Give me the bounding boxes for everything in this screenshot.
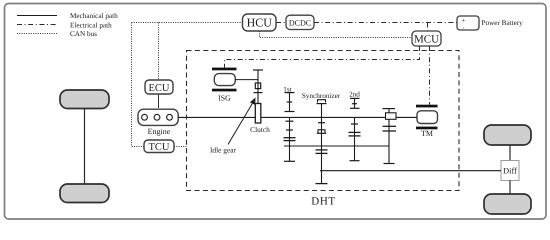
wire electrical MCU top riser [427,23,429,32]
gear 1st label [283,86,291,94]
axle right lower [509,181,511,195]
Diff [501,161,519,181]
shaft engine to clutch [178,116,255,118]
legend mechanical path line [17,12,118,20]
gear 1st lower train [284,117,296,161]
svg-text:Mechanical path: Mechanical path [70,12,118,20]
HCU [243,14,277,31]
output shaft to Diff [320,170,501,172]
wire ISG output [235,79,258,81]
svg-text:MCU: MCU [414,34,439,46]
main shaft clutch to TM [262,116,418,118]
svg-text:Engine: Engine [148,127,171,136]
TCU [144,140,174,153]
gear 2nd label [349,91,360,99]
svg-text:TM: TM [421,129,433,138]
svg-text:+: + [462,17,466,24]
Engine [138,109,178,136]
idle gear label and arrow [210,98,256,155]
gear 2nd lower train [349,117,361,160]
clutch C1 [250,104,270,135]
wire CAN bus vertical to ECU [158,23,160,81]
synchronizer lower train [316,117,328,170]
wire CAN bus TCU to DHT [174,146,187,148]
wire CAN bus HCU to MCU [260,31,413,38]
svg-text:Diff: Diff [503,166,517,176]
legend CAN bus line [17,30,97,38]
svg-text:DHT: DHT [311,196,335,208]
wire ECU to Engine [158,94,160,108]
ISG motor [212,68,237,103]
svg-text:HCU: HCU [247,16,273,30]
axle right upper [509,145,511,161]
gear 1st upper [285,93,295,112]
MCU [412,31,441,46]
wheel front-right [484,125,531,145]
svg-text:Synchronizer: Synchronizer [302,92,341,100]
svg-text:2nd: 2nd [349,91,360,99]
counter shaft [284,145,389,147]
svg-text:Idle gear: Idle gear [210,146,237,155]
axle front [84,109,86,185]
idle gear shaft column [253,70,263,104]
Power Battery [457,16,523,31]
DCDC [286,15,314,29]
wire CAN bus vertical to TCU [132,23,145,147]
synchronizer label [302,92,341,100]
svg-text:Clutch: Clutch [250,125,270,134]
svg-text:Electrical path: Electrical path [70,22,112,30]
DHT dashed box [187,51,460,208]
legend electrical path line [17,22,112,30]
TM motor [416,105,438,139]
svg-text:TCU: TCU [149,142,170,153]
svg-text:Power Battery: Power Battery [482,19,524,27]
TM gear column [383,109,397,164]
svg-text:ECU: ECU [149,83,170,94]
svg-text:ISG: ISG [218,94,231,103]
wire electrical MCU to TM [429,46,431,105]
wire electrical DCDC to Power Battery [314,22,457,24]
output gear below output shaft [316,171,328,184]
idle gear [254,83,263,93]
svg-text:CAN bus: CAN bus [70,30,97,38]
ECU [145,80,173,94]
svg-text:DCDC: DCDC [289,18,311,27]
svg-text:-: - [462,24,464,31]
wheel rear-right [484,194,531,214]
wire CAN bus horizontal to HCU [132,22,243,24]
wheel front-left [60,90,109,109]
wire electrical MCU to ISG [225,46,420,68]
wheel rear-left [60,184,109,203]
gear 2nd upper [350,98,360,108]
synchronizer [317,100,327,118]
wire electrical HCU to DCDC [276,22,286,24]
